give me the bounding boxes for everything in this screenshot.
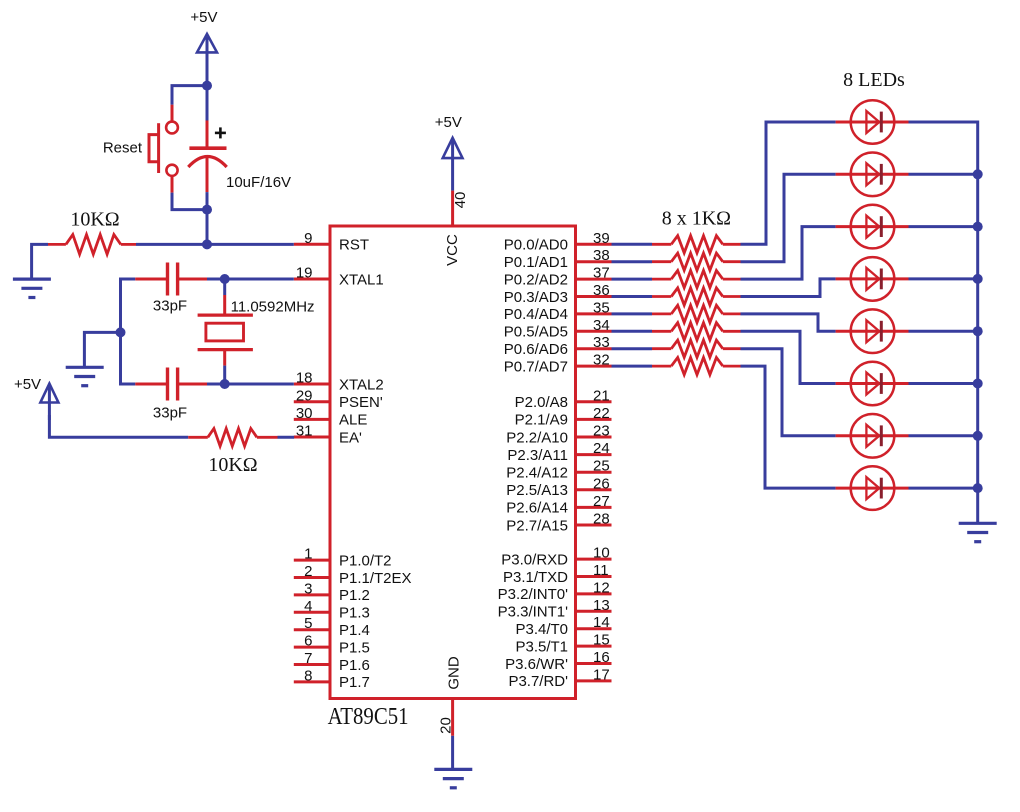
svg-text:1: 1 xyxy=(304,546,312,563)
svg-text:ALE: ALE xyxy=(339,412,367,429)
svg-text:10uF/16V: 10uF/16V xyxy=(226,174,291,191)
svg-text:P0.7/AD7: P0.7/AD7 xyxy=(504,358,568,375)
svg-text:35: 35 xyxy=(593,299,610,316)
svg-text:EA': EA' xyxy=(339,429,362,446)
svg-text:11: 11 xyxy=(593,562,609,579)
svg-text:AT89C51: AT89C51 xyxy=(328,702,409,729)
svg-text:+5V: +5V xyxy=(14,376,41,393)
svg-text:+5V: +5V xyxy=(435,114,462,131)
svg-text:10: 10 xyxy=(593,545,610,562)
svg-text:25: 25 xyxy=(593,458,610,475)
svg-text:34: 34 xyxy=(593,317,610,334)
svg-text:P3.3/INT1': P3.3/INT1' xyxy=(498,604,569,621)
svg-text:8 LEDs: 8 LEDs xyxy=(843,69,905,91)
svg-text:11.0592MHz: 11.0592MHz xyxy=(231,299,315,316)
svg-text:4: 4 xyxy=(304,598,312,615)
svg-text:P1.2: P1.2 xyxy=(339,587,370,604)
svg-text:P0.1/AD1: P0.1/AD1 xyxy=(504,254,568,271)
svg-text:19: 19 xyxy=(296,265,313,282)
svg-text:18: 18 xyxy=(296,370,313,387)
svg-text:P3.6/WR': P3.6/WR' xyxy=(505,656,568,673)
svg-text:33: 33 xyxy=(593,334,610,351)
svg-text:27: 27 xyxy=(593,493,610,510)
svg-text:33pF: 33pF xyxy=(153,297,187,314)
svg-text:31: 31 xyxy=(296,423,313,440)
svg-text:P2.1/A9: P2.1/A9 xyxy=(515,412,568,429)
svg-text:32: 32 xyxy=(593,352,610,369)
svg-text:P3.4/T0: P3.4/T0 xyxy=(515,621,568,638)
svg-text:8: 8 xyxy=(304,667,312,684)
svg-text:P3.2/INT0': P3.2/INT0' xyxy=(498,586,569,603)
svg-text:P3.7/RD': P3.7/RD' xyxy=(508,673,568,690)
svg-text:XTAL1: XTAL1 xyxy=(339,271,384,288)
svg-text:22: 22 xyxy=(593,405,610,422)
svg-text:P2.2/A10: P2.2/A10 xyxy=(506,429,568,446)
svg-text:10KΩ: 10KΩ xyxy=(208,454,257,476)
svg-text:GND: GND xyxy=(446,656,463,690)
svg-text:P2.7/A15: P2.7/A15 xyxy=(506,517,568,534)
svg-text:21: 21 xyxy=(593,387,610,404)
svg-text:P0.6/AD6: P0.6/AD6 xyxy=(504,341,568,358)
svg-text:P2.6/A14: P2.6/A14 xyxy=(506,500,568,517)
svg-text:P2.5/A13: P2.5/A13 xyxy=(506,482,568,499)
svg-text:23: 23 xyxy=(593,423,610,440)
svg-text:P0.3/AD3: P0.3/AD3 xyxy=(504,289,568,306)
svg-text:28: 28 xyxy=(593,511,610,528)
svg-text:30: 30 xyxy=(296,405,313,422)
svg-text:9: 9 xyxy=(304,230,312,247)
svg-text:16: 16 xyxy=(593,649,610,666)
svg-text:10KΩ: 10KΩ xyxy=(70,209,119,231)
svg-text:38: 38 xyxy=(593,247,610,264)
svg-text:P0.5/AD5: P0.5/AD5 xyxy=(504,324,568,341)
svg-text:PSEN': PSEN' xyxy=(339,394,383,411)
svg-text:P1.0/T2: P1.0/T2 xyxy=(339,552,392,569)
svg-text:37: 37 xyxy=(593,265,610,282)
svg-text:3: 3 xyxy=(304,580,312,597)
svg-text:P2.0/A8: P2.0/A8 xyxy=(515,394,568,411)
svg-text:17: 17 xyxy=(593,666,610,683)
svg-text:12: 12 xyxy=(593,579,610,596)
svg-text:6: 6 xyxy=(304,633,312,650)
svg-text:24: 24 xyxy=(593,440,610,457)
svg-text:29: 29 xyxy=(296,387,313,404)
svg-text:40: 40 xyxy=(452,192,469,209)
svg-text:P0.4/AD4: P0.4/AD4 xyxy=(504,306,568,323)
svg-text:P2.4/A12: P2.4/A12 xyxy=(506,465,568,482)
svg-text:39: 39 xyxy=(593,230,610,247)
svg-text:P1.7: P1.7 xyxy=(339,674,370,691)
svg-text:P0.0/AD0: P0.0/AD0 xyxy=(504,237,568,254)
svg-text:14: 14 xyxy=(593,614,610,631)
svg-text:P2.3/A11: P2.3/A11 xyxy=(507,447,568,464)
svg-text:26: 26 xyxy=(593,475,610,492)
svg-text:P3.0/RXD: P3.0/RXD xyxy=(501,551,568,568)
svg-text:P3.5/T1: P3.5/T1 xyxy=(515,638,568,655)
svg-text:P0.2/AD2: P0.2/AD2 xyxy=(504,271,568,288)
svg-text:VCC: VCC xyxy=(444,234,461,266)
svg-text:33pF: 33pF xyxy=(153,404,187,421)
svg-text:13: 13 xyxy=(593,597,610,614)
svg-text:2: 2 xyxy=(304,563,312,580)
svg-text:P3.1/TXD: P3.1/TXD xyxy=(503,569,568,586)
svg-text:P1.5: P1.5 xyxy=(339,639,370,656)
svg-text:P1.3: P1.3 xyxy=(339,605,370,622)
svg-text:P1.1/T2EX: P1.1/T2EX xyxy=(339,570,412,587)
svg-text:+5V: +5V xyxy=(190,9,217,26)
svg-text:RST: RST xyxy=(339,237,369,254)
svg-text:7: 7 xyxy=(304,650,312,667)
svg-text:15: 15 xyxy=(593,632,610,649)
svg-text:Reset: Reset xyxy=(103,140,143,157)
svg-text:P1.4: P1.4 xyxy=(339,622,370,639)
svg-text:XTAL2: XTAL2 xyxy=(339,376,384,393)
svg-text:5: 5 xyxy=(304,615,312,632)
svg-text:8 x 1KΩ: 8 x 1KΩ xyxy=(662,207,731,229)
svg-text:36: 36 xyxy=(593,282,610,299)
svg-text:P1.6: P1.6 xyxy=(339,657,370,674)
